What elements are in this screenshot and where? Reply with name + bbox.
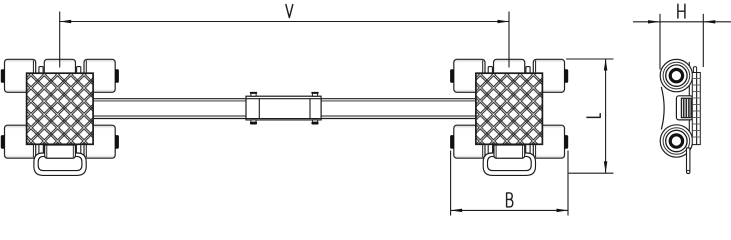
label B <box>507 193 513 207</box>
dimension H <box>633 14 731 70</box>
bottom roller (side): concentric rings <box>660 125 692 157</box>
left skate <box>1 59 119 175</box>
frame waist (left) <box>661 87 664 130</box>
handle stub (edge-on) <box>687 148 690 174</box>
frame right edge <box>688 62 690 154</box>
label H <box>678 4 685 18</box>
arrow B right <box>557 209 569 213</box>
arrow H left <box>648 20 660 23</box>
top roller (side): concentric rings <box>660 59 692 91</box>
label L <box>587 114 600 118</box>
bolt bottom-left <box>251 120 256 123</box>
central coupling sleeve <box>246 92 321 125</box>
sleeve body <box>246 96 321 120</box>
side view <box>660 59 700 173</box>
arrow H right <box>703 20 715 23</box>
plate edge-on with ticks <box>692 67 700 145</box>
dimension B <box>451 151 568 216</box>
bar outer edges through sleeve <box>246 98 321 100</box>
label V <box>286 5 293 18</box>
arrow V right <box>498 20 510 24</box>
bolt top-right <box>312 93 317 96</box>
arrow B left <box>451 209 463 213</box>
arrow V left <box>60 20 71 24</box>
coupling socket (bar end-on) <box>676 96 692 120</box>
bar end joints inside sleeve <box>258 99 260 119</box>
bolt bottom-right <box>312 120 317 123</box>
bar inner wall lines <box>93 100 476 102</box>
dimension L <box>566 59 614 173</box>
arrow L top <box>604 59 608 71</box>
bolt top-left <box>251 93 256 96</box>
connecting bar (outer tube edges) <box>93 99 476 119</box>
dimension V <box>60 12 509 68</box>
arrow L bottom <box>604 161 608 173</box>
right skate <box>450 59 568 175</box>
